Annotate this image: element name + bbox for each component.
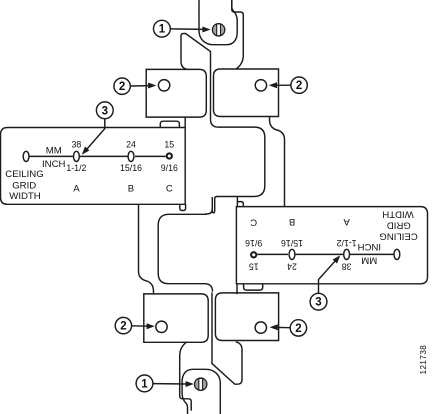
- svg-text:1: 1: [141, 378, 148, 390]
- callout 2 lower-right: [275, 320, 307, 336]
- svg-text:1: 1: [159, 24, 166, 36]
- callout 3 bottom: [310, 259, 337, 310]
- callout 3 top: [85, 102, 113, 151]
- callout 1 bottom: [136, 375, 189, 392]
- svg-text:3: 3: [102, 105, 108, 117]
- clamp rect upper-left: [146, 69, 206, 117]
- right panel bump tab: [244, 284, 263, 290]
- clamp rect lower-right: [215, 293, 278, 341]
- slot fillet to lower blob edge: [206, 209, 213, 214]
- top attach pentagon + spine upper edge: [181, 34, 211, 120]
- clamp rect upper-right: [214, 69, 279, 117]
- right panel left edge extension: [236, 284, 238, 294]
- clamp rect lower-left: [144, 294, 208, 342]
- central slot between clip strips: [212, 197, 217, 213]
- svg-text:3: 3: [315, 297, 321, 309]
- callout 1 top: [154, 20, 206, 37]
- left panel lower tab: [180, 204, 186, 210]
- bottom attach hook + spine lower edge: [212, 292, 242, 384]
- callout 2 lower-left: [115, 317, 149, 333]
- top half of template: [5, 0, 284, 207]
- hole upper-right: [255, 80, 266, 91]
- hole lower-right: [255, 322, 266, 333]
- left panel right edge extension: [184, 117, 186, 127]
- svg-text:2: 2: [296, 80, 302, 92]
- svg-text:121738: 121738: [419, 345, 428, 375]
- bottom screw tab (rotated copy): [182, 369, 220, 414]
- svg-text:2: 2: [119, 81, 125, 93]
- svg-text:2: 2: [120, 321, 126, 333]
- top screw tab: [199, 0, 237, 45]
- hole upper-left: [158, 80, 169, 91]
- right ruler panel: [236, 207, 427, 284]
- bottom half of template (rotated copy): [139, 204, 418, 411]
- hole lower-left: [156, 321, 167, 332]
- left panel bump tab: [160, 121, 179, 127]
- left ruler panel: [1, 128, 186, 205]
- callout 2 upper-right: [274, 77, 307, 93]
- right panel upper tab: [237, 197, 243, 207]
- callout 2 upper-left: [114, 78, 151, 94]
- svg-text:2: 2: [295, 323, 301, 335]
